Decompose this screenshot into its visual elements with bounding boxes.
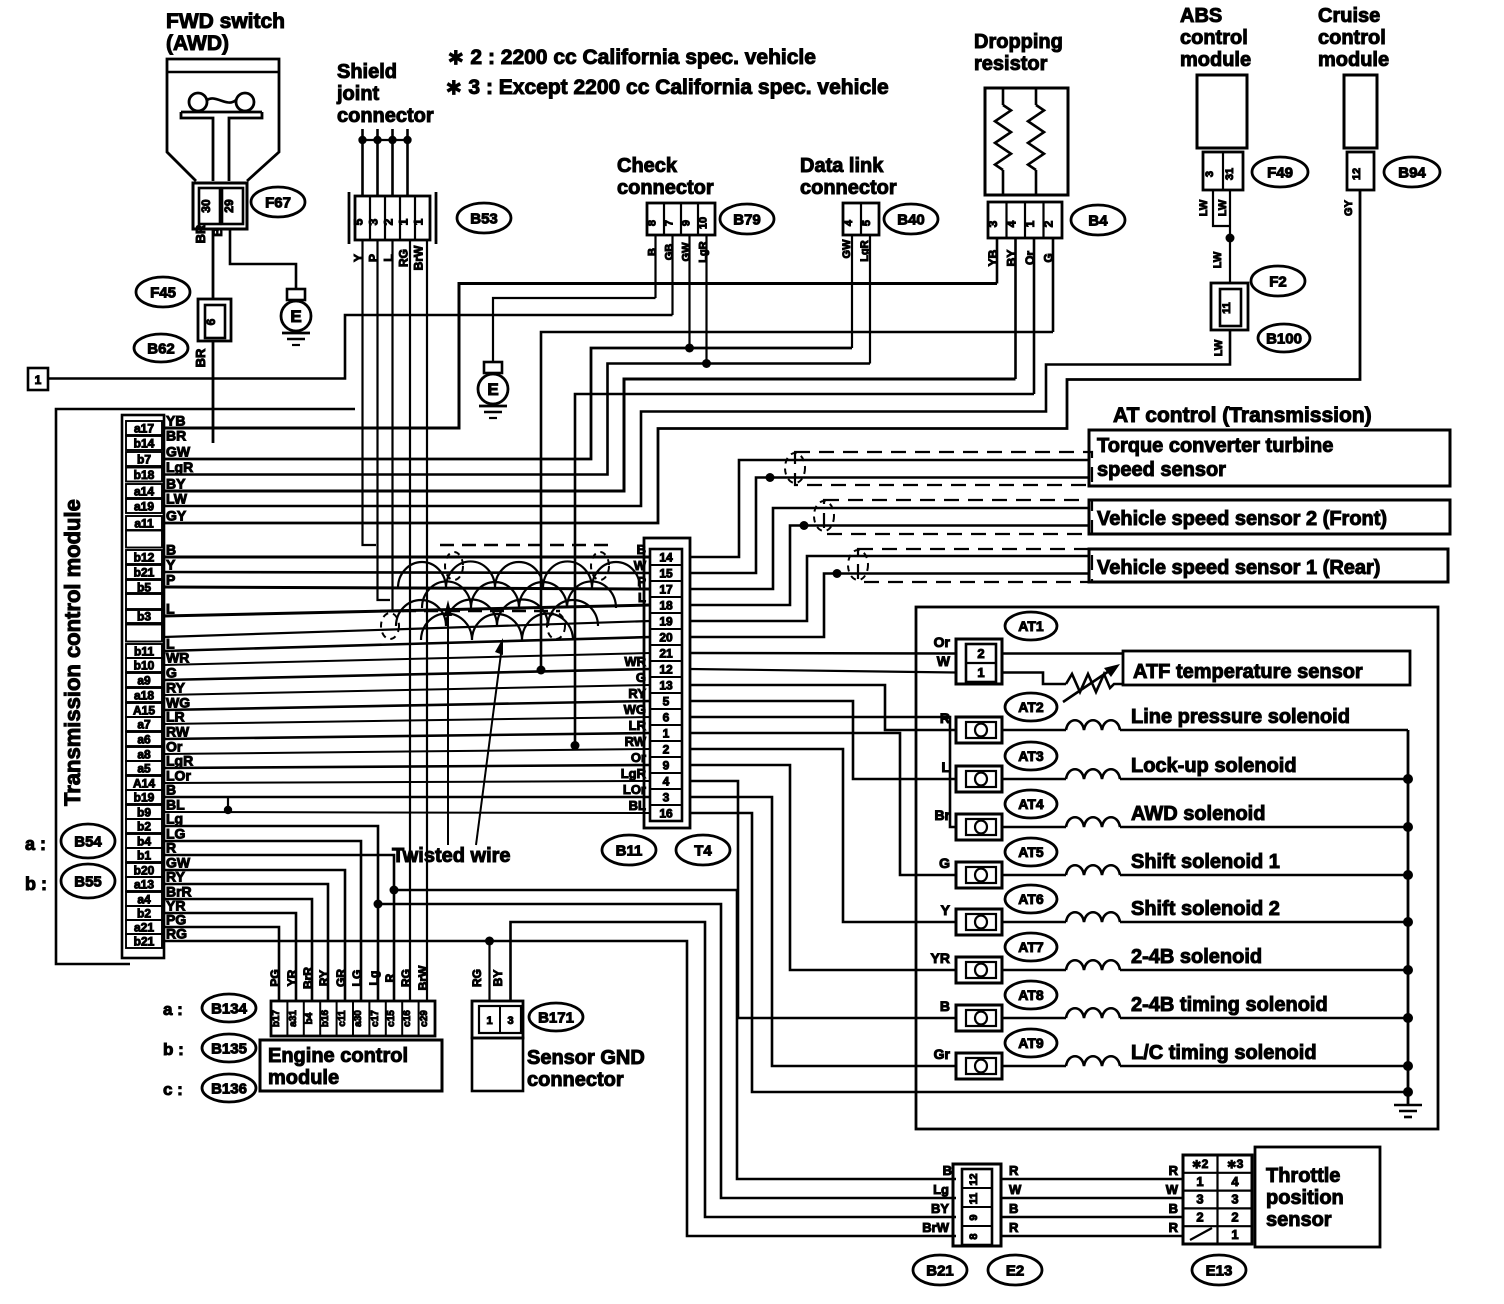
wire Br from B11 pin6 to AT4 [690, 717, 956, 827]
data link pin4 wire GW down [851, 235, 853, 348]
svg-text:FWD switch: FWD switch [166, 10, 285, 33]
svg-text:RG: RG [470, 969, 484, 987]
wire BR from FWD switch to connector B62 [212, 229, 215, 299]
svg-text:20: 20 [659, 631, 673, 645]
svg-text:F45: F45 [150, 284, 176, 301]
svg-text:Transmission control module: Transmission control module [60, 499, 85, 806]
svg-text:R: R [1169, 1220, 1179, 1235]
wire RG/BrW row from TCM b21 to B21 pin8 [164, 941, 956, 1236]
svg-text:3: 3 [663, 791, 670, 805]
svg-text:19: 19 [659, 615, 673, 629]
Sensor GND connector body [472, 1001, 523, 1038]
wire P from TCM b5 to B11 pin17 [164, 587, 650, 589]
connector F67 label [251, 187, 305, 217]
svg-text:c11: c11 [337, 1010, 348, 1027]
svg-text:connector: connector [527, 1069, 624, 1091]
wire torque sensor wire 2 from B11 pin15 [690, 478, 1089, 574]
shield dashed box VSS2 pair [824, 500, 1092, 534]
svg-text:a :: a : [25, 834, 46, 854]
svg-text:WG: WG [624, 702, 646, 717]
Vehicle speed sensor 1 (Rear) box [1089, 549, 1448, 582]
connector T4 label [676, 835, 730, 865]
svg-text:b4: b4 [304, 1012, 315, 1024]
shield dashed box torque converter pair [795, 452, 1092, 485]
svg-text:B54: B54 [74, 833, 102, 850]
svg-text:a18: a18 [134, 689, 154, 703]
svg-text:Lg: Lg [933, 1182, 949, 1197]
svg-text:L/C timing solenoid: L/C timing solenoid [1131, 1042, 1317, 1064]
solenoid connector AT5 [1005, 838, 1057, 866]
svg-text:B55: B55 [74, 873, 102, 890]
ground in AT box [1407, 1092, 1410, 1105]
dropping pin2 wire G down [1052, 238, 1055, 332]
svg-text:B: B [647, 248, 659, 256]
data link connector B40 body [843, 203, 879, 235]
check pin7 wire GB [671, 235, 673, 315]
Line pressure solenoid coil [1002, 729, 1066, 732]
svg-text:a4: a4 [137, 893, 151, 907]
svg-text:2: 2 [1231, 1209, 1238, 1224]
2-4B solenoid coil [1002, 969, 1066, 972]
wire VSS1 wire 1 from B11 pin19 [690, 556, 1089, 621]
svg-text:(AWD): (AWD) [166, 32, 229, 55]
svg-text:AT2: AT2 [1018, 699, 1044, 715]
svg-text:GW: GW [681, 242, 693, 262]
svg-text:B136: B136 [211, 1080, 247, 1097]
svg-text:Engine control: Engine control [268, 1045, 408, 1067]
svg-text:AT4: AT4 [1018, 796, 1044, 812]
svg-text:Data link: Data link [800, 155, 884, 177]
dropping resistor element 1 [1002, 88, 1005, 105]
svg-text:B171: B171 [538, 1009, 574, 1026]
svg-text:21: 21 [659, 647, 673, 661]
wire a9 G from TCM to B11 pin12 [164, 669, 650, 680]
svg-text:2-4B solenoid: 2-4B solenoid [1131, 946, 1262, 968]
svg-text:GY: GY [166, 508, 187, 524]
svg-text:AT7: AT7 [1018, 939, 1044, 955]
svg-text:G: G [636, 670, 646, 685]
svg-text:RY: RY [166, 680, 186, 696]
svg-text:1: 1 [1196, 1174, 1203, 1189]
svg-text:L: L [166, 601, 175, 617]
svg-text:W: W [634, 558, 647, 573]
svg-text:Throttle: Throttle [1266, 1165, 1340, 1187]
wire b1 R from TCM to ECM [164, 855, 394, 1001]
svg-text:B: B [943, 1163, 952, 1178]
svg-text:LW: LW [166, 491, 188, 507]
svg-text:W: W [937, 653, 951, 669]
svg-text:AWD solenoid: AWD solenoid [1131, 803, 1265, 825]
junction RG [485, 937, 494, 946]
FWD switch F67 symbol [167, 59, 279, 181]
svg-text:8: 8 [647, 220, 659, 226]
svg-text:Shield: Shield [337, 61, 397, 83]
svg-text:F67: F67 [265, 194, 291, 211]
connector E2 label [988, 1255, 1042, 1285]
connector F45/B62 inline [198, 299, 231, 341]
svg-text:E: E [290, 307, 301, 326]
svg-text:LgR: LgR [698, 241, 710, 262]
twisted wire bundle B braid [396, 599, 598, 626]
connector B100 label [1258, 324, 1310, 352]
svg-text:17: 17 [659, 583, 673, 597]
svg-text:1: 1 [1023, 220, 1037, 227]
svg-text:31: 31 [1224, 168, 1236, 180]
svg-text:9: 9 [968, 1214, 980, 1220]
svg-text:G: G [939, 855, 950, 871]
wire VSS1 wire 2 from B11 pin20 [690, 574, 1089, 638]
svg-text:b7: b7 [137, 453, 151, 467]
svg-text:R: R [383, 973, 397, 982]
svg-text:1: 1 [977, 665, 984, 680]
shield wire 4 RG down to engine control module [409, 240, 411, 1001]
svg-text:AT5: AT5 [1018, 844, 1044, 860]
svg-text:b3: b3 [137, 610, 151, 624]
connector F45 label [136, 277, 190, 307]
svg-text:WR: WR [624, 654, 646, 669]
svg-text:BrW: BrW [412, 245, 426, 270]
svg-text:a13: a13 [134, 878, 154, 892]
svg-text:1: 1 [663, 727, 670, 741]
svg-text:Line pressure solenoid: Line pressure solenoid [1131, 706, 1350, 728]
svg-text:9: 9 [681, 220, 693, 226]
svg-text:Shift solenoid 2: Shift solenoid 2 [1131, 898, 1280, 920]
svg-text:B79: B79 [733, 211, 761, 228]
wire b20 GW from TCM to ECM [164, 870, 345, 1001]
svg-text:B62: B62 [147, 340, 175, 357]
wire L2 to B11 pin19 [164, 621, 650, 637]
svg-text:a21: a21 [134, 921, 154, 935]
wire G from B11 pin1 to AT5 [690, 733, 956, 875]
svg-text:5: 5 [861, 220, 873, 226]
connector B62 label [134, 334, 188, 362]
svg-text:b19: b19 [134, 791, 155, 805]
junction R/B21 branch [390, 886, 399, 895]
svg-text:B4: B4 [1088, 212, 1108, 229]
wire Y from TCM b21 to B11 pin15 [164, 572, 650, 573]
svg-text:8: 8 [968, 1233, 980, 1239]
svg-text:RG: RG [399, 969, 413, 987]
TCM pin boxes [126, 421, 162, 435]
svg-text:1: 1 [397, 218, 411, 225]
svg-text:2: 2 [1042, 220, 1056, 227]
svg-text:R: R [1009, 1163, 1019, 1178]
svg-text:b11: b11 [134, 645, 154, 659]
Vehicle speed sensor 2 (Front) box [1089, 500, 1450, 534]
wire R from B11 pin13 to AT2 [690, 685, 956, 730]
wire a4 BrR from TCM to ECM [164, 899, 312, 1001]
svg-text:3: 3 [986, 220, 1000, 227]
shield dashed box VSS1 pair [858, 549, 1092, 582]
connector B171 label [529, 1003, 583, 1031]
wire B to throttle sensor [1001, 1216, 1183, 1219]
AWD solenoid coil [1002, 826, 1066, 829]
svg-text:11: 11 [968, 1193, 980, 1205]
check connector B79 body [647, 203, 715, 235]
connector B4 label [1071, 205, 1125, 235]
svg-text:b17: b17 [271, 1009, 282, 1027]
wire Or riser from dropping pin1 down to TCM a8 row [575, 394, 1034, 746]
ATF temperature sensor box [1123, 651, 1410, 685]
svg-text:R: R [1169, 1163, 1179, 1178]
shield wire 5 BrW down to engine control module [426, 240, 428, 1001]
junction G on a9 row [537, 666, 546, 675]
svg-text:W: W [1166, 1182, 1179, 1197]
svg-text:B40: B40 [897, 211, 925, 228]
svg-text:b2: b2 [137, 820, 151, 834]
svg-text:Lg: Lg [367, 971, 381, 986]
ABS pin31 wire LW down to F2 connector [1229, 190, 1231, 283]
svg-text:4: 4 [843, 219, 855, 226]
wire B from TCM b12 to B11 pin14 [164, 556, 650, 559]
svg-text:a31: a31 [288, 1010, 299, 1027]
svg-text:10: 10 [698, 217, 710, 229]
svg-text:29: 29 [222, 199, 236, 213]
svg-text:b21: b21 [134, 566, 155, 580]
svg-text:B11: B11 [616, 842, 643, 859]
Cruise control module box [1344, 75, 1377, 148]
svg-text:2: 2 [382, 218, 396, 225]
Engine control module box [260, 1040, 442, 1091]
svg-text:B: B [637, 542, 646, 557]
wire R to throttle sensor [1001, 1178, 1183, 1181]
junction b19/b9 [227, 797, 229, 811]
svg-text:a8: a8 [137, 748, 151, 762]
svg-text:P: P [166, 572, 175, 588]
svg-text:ABS: ABS [1180, 5, 1222, 27]
svg-text:6: 6 [204, 318, 218, 325]
svg-text:B: B [166, 542, 176, 558]
shield wire 2 to twisted pair A shield end [378, 240, 391, 600]
connector 1 (far left) [28, 368, 48, 390]
svg-text:LW: LW [1198, 199, 1210, 216]
svg-text:∗2: ∗2 [1192, 1157, 1209, 1171]
svg-text:3: 3 [507, 1015, 513, 1027]
connector B11 label [602, 835, 656, 865]
svg-text:YB: YB [166, 413, 185, 429]
svg-text:3: 3 [1196, 1192, 1203, 1207]
svg-text:ATF temperature sensor: ATF temperature sensor [1133, 661, 1363, 683]
dropping resistor element 2 [1035, 88, 1038, 105]
svg-text:Shift solenoid 1: Shift solenoid 1 [1131, 851, 1280, 873]
svg-text:16: 16 [659, 807, 673, 821]
wire b9 BL from TCM to B11 pin16 [164, 812, 650, 813]
svg-text:Torque converter turbine: Torque converter turbine [1097, 435, 1333, 457]
svg-text:RY: RY [628, 686, 646, 701]
svg-text:GW: GW [166, 444, 191, 460]
svg-text:B94: B94 [1398, 164, 1426, 181]
dropping pin1 wire Or down [1033, 238, 1036, 394]
svg-text:13: 13 [659, 679, 673, 693]
wire Y from B11 pin2 to AT6 [690, 749, 956, 922]
svg-text:YR: YR [285, 969, 299, 986]
svg-text:RW: RW [625, 734, 647, 749]
wire YB from TCM a17 to dropping resistor [164, 284, 997, 429]
wire LW from B100 to TCM a19 (via jog) [164, 330, 1230, 506]
svg-text:b9: b9 [137, 806, 151, 820]
svg-text:RW: RW [166, 724, 190, 740]
svg-text:AT6: AT6 [1018, 891, 1044, 907]
svg-text:B100: B100 [1266, 330, 1302, 347]
svg-text:BrW: BrW [416, 965, 430, 990]
check pin8 wire B to ground E [654, 235, 656, 298]
wire a6 RW from TCM to B11 pin1 [164, 733, 650, 739]
2-4B timing solenoid coil [1002, 1017, 1066, 1020]
svg-text:Sensor GND: Sensor GND [527, 1047, 645, 1069]
ground E (left) [287, 289, 305, 300]
svg-text:a11: a11 [134, 517, 154, 531]
svg-text:c29: c29 [419, 1010, 430, 1027]
svg-text:Cruise: Cruise [1318, 5, 1380, 27]
wire b4 LG from TCM to ECM [164, 841, 361, 1001]
svg-text:Dropping: Dropping [974, 31, 1063, 53]
wire LgR from TCM b18 to check pin10 and data link pin5 [164, 364, 870, 475]
svg-text:F2: F2 [1269, 273, 1287, 290]
wire BL from B11 pin16 to bus [690, 813, 1408, 1092]
wire W from B11 pin12 to AT1 [690, 669, 956, 673]
svg-text:BrR: BrR [301, 967, 315, 989]
junction Or on a8 row [571, 741, 580, 750]
svg-text:a5: a5 [137, 762, 151, 776]
svg-text:T4: T4 [694, 842, 712, 859]
svg-text:b16: b16 [320, 1009, 331, 1027]
svg-text:module: module [1318, 49, 1389, 71]
svg-text:resistor: resistor [974, 53, 1048, 75]
svg-text:b4: b4 [137, 835, 151, 849]
TCM pin column border [122, 415, 164, 958]
svg-text:Y: Y [941, 902, 951, 918]
wire Lg to B21 pin11 [378, 904, 956, 1198]
svg-text:GR: GR [334, 969, 348, 987]
svg-text:b10: b10 [134, 659, 155, 673]
wire VSS2 wire 2 from B11 pin18 [690, 526, 1089, 606]
Shift solenoid 2 coil [1002, 921, 1066, 924]
svg-text:b :: b : [25, 874, 47, 894]
svg-text:F49: F49 [1267, 164, 1293, 181]
wire W to throttle sensor [1001, 1197, 1183, 1200]
svg-text:30: 30 [199, 199, 213, 213]
svg-text:6: 6 [663, 711, 670, 725]
svg-text:b2: b2 [137, 907, 151, 921]
svg-text:3: 3 [367, 218, 381, 225]
dropping pin4 wire BY down [1014, 238, 1017, 379]
svg-text:module: module [268, 1067, 339, 1089]
svg-text:Or: Or [934, 634, 951, 650]
svg-text:a :: a : [163, 1000, 183, 1019]
svg-text:Or: Or [631, 750, 646, 765]
solenoid common bus [1407, 730, 1410, 1092]
Cruise module connector B94 pin [1347, 152, 1374, 190]
connector AT1 [1005, 612, 1057, 640]
svg-text:12: 12 [1351, 168, 1363, 180]
solenoid connector AT9 [1005, 1029, 1057, 1057]
wire a18 RY from TCM to B11 pin13 [164, 685, 650, 695]
svg-text:1: 1 [35, 373, 42, 387]
svg-text:W: W [1009, 1182, 1022, 1197]
svg-text:BY: BY [166, 476, 186, 492]
svg-text:11: 11 [1221, 302, 1233, 314]
svg-text:a6: a6 [137, 733, 151, 747]
svg-text:c :: c : [163, 1080, 183, 1099]
svg-text:BR: BR [193, 224, 208, 243]
wire GW from TCM b7 to check pin9 and data link pin4 [164, 348, 852, 459]
Lock-up solenoid coil [1002, 778, 1066, 781]
wire L from B11 pin5 to AT3 [690, 701, 956, 779]
svg-text:connector: connector [617, 177, 714, 199]
svg-text:4: 4 [663, 775, 670, 789]
svg-text:YR: YR [931, 950, 950, 966]
shield wire 3 to twisted pair B shield [393, 240, 405, 611]
wire GY from cruise module to TCM a11 [164, 190, 1360, 523]
svg-text:BrW: BrW [922, 1220, 949, 1235]
AT control box [916, 607, 1438, 1129]
svg-text:4: 4 [1005, 220, 1019, 227]
junction [1226, 234, 1235, 243]
dropping pin3 wire YB down [996, 238, 999, 284]
svg-text:AT1: AT1 [1018, 618, 1044, 634]
svg-text:∗ 2 : 2200 cc California spec.: ∗ 2 : 2200 cc California spec. vehicle [447, 46, 816, 69]
svg-text:position: position [1266, 1187, 1344, 1209]
svg-text:c15: c15 [386, 1010, 397, 1027]
wire b11 L from TCM to B11 pin20 [164, 637, 650, 651]
svg-text:G: G [166, 665, 177, 681]
svg-text:12: 12 [659, 663, 673, 677]
wire G riser from dropping pin2 down to TCM a9 row [541, 332, 1053, 670]
wire BY from sensor GND to B21 pin9 [511, 922, 957, 1217]
svg-text:Twisted wire: Twisted wire [392, 845, 511, 867]
svg-text:LR: LR [629, 718, 647, 733]
svg-text:connector: connector [800, 177, 897, 199]
solenoid connector AT3 [1005, 742, 1057, 770]
engine control module connector row [271, 1001, 435, 1036]
svg-text:B: B [1009, 1201, 1018, 1216]
svg-text:5: 5 [663, 695, 670, 709]
wire A14 LOr from TCM to B11 pin4 [164, 781, 650, 783]
solenoid connector AT4 [1005, 790, 1057, 818]
svg-text:LgR: LgR [621, 766, 647, 781]
wire VSS2 wire 1 from B11 pin17 [690, 508, 1089, 589]
svg-text:module: module [1180, 49, 1251, 71]
connector B53 body [348, 192, 351, 244]
ABS control module box [1197, 75, 1247, 148]
wire Gr from B11 pin3 to AT9 [690, 797, 956, 1066]
wire L from TCM b3 to B11 pin18 [164, 605, 650, 616]
junction GW at check pin9 [685, 344, 694, 353]
svg-text:b18: b18 [134, 468, 155, 482]
svg-text:BY: BY [491, 970, 505, 987]
wire BY from TCM a14 to dropping resistor pin4 [164, 379, 1016, 491]
Transmission control module bracket [56, 409, 355, 964]
svg-text:GY: GY [1343, 199, 1355, 216]
shield joint connector top wires with junction dots [361, 129, 364, 196]
svg-text:∗ 3 : Except 2200 cc Californi: ∗ 3 : Except 2200 cc California spec. ve… [445, 76, 889, 99]
svg-text:connector: connector [337, 105, 434, 127]
svg-text:LgR: LgR [166, 459, 193, 475]
shield wire 1 to twisted pair A shield [363, 240, 377, 545]
svg-text:Gr: Gr [934, 1046, 951, 1062]
svg-text:BR: BR [166, 428, 186, 444]
connector F2/B100 inline [1211, 283, 1248, 330]
svg-text:LW: LW [1213, 339, 1225, 356]
junction Lg/B21 branch [374, 900, 383, 909]
svg-text:PG: PG [268, 969, 282, 986]
connector B21 label [913, 1255, 967, 1285]
wire torque sensor wire 1 from B11 pin14 [690, 460, 1089, 557]
FWD switch connector F67 pins [193, 183, 247, 229]
svg-text:1: 1 [486, 1015, 492, 1027]
svg-text:2-4B timing solenoid: 2-4B timing solenoid [1131, 994, 1328, 1016]
svg-text:B135: B135 [211, 1040, 247, 1057]
